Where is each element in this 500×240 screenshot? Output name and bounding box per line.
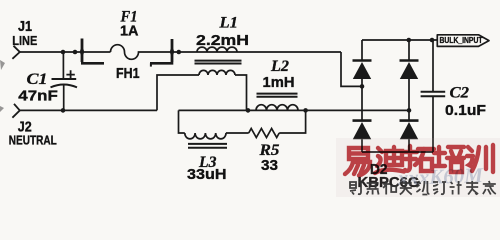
wire jog line rail down to bridge AC1 (341, 52, 362, 86)
diode D2c bottom-left (353, 121, 372, 140)
connector J1 (12, 46, 19, 59)
svg-text:L1: L1 (218, 15, 238, 32)
node fuse right terminal (177, 50, 182, 55)
tagline char she (350, 182, 363, 195)
fuseholder FH1 right clip (150, 39, 174, 67)
inductor L1 winding B (199, 70, 235, 75)
diode D2b top-right (400, 61, 419, 80)
wire L3 to R5 (226, 132, 249, 134)
wire bridge right leg (408, 40, 410, 152)
svg-text:C1: C1 (27, 71, 48, 88)
svg-text:2.2mH: 2.2mH (196, 32, 249, 49)
resistor R5 (249, 129, 280, 138)
net flag BULK_INPUT (437, 35, 489, 47)
node C2 top junction (430, 38, 435, 43)
tagline char jia (483, 181, 496, 195)
node bridge AC2 junction (407, 108, 412, 113)
node A junction (246, 108, 251, 113)
svg-text:LINE: LINE (12, 33, 37, 48)
wire R5 to node B (279, 110, 305, 133)
inductor L1 winding A (197, 47, 237, 52)
tagline char he (383, 181, 396, 195)
watermark char tuo (404, 146, 434, 171)
svg-text:33: 33 (261, 157, 278, 174)
fuse F1 element (111, 45, 173, 60)
wire damping branch left side (179, 110, 185, 133)
wire top rail from J1 to fuse (20, 51, 111, 53)
capacitor C2 (421, 40, 446, 152)
watermark red characters (345, 145, 493, 176)
svg-text:1A: 1A (120, 22, 139, 39)
inductor L2 winding (256, 105, 298, 111)
svg-text:0.1uF: 0.1uF (445, 102, 486, 119)
wire filter mid rail (node A to bridge AC2) (179, 109, 410, 111)
inductor L2 core (257, 94, 298, 97)
tagline char pin (367, 183, 379, 195)
svg-text:1mH: 1mH (263, 74, 295, 91)
svg-text:BULK_INPUT: BULK_INPUT (440, 36, 483, 45)
diode D2d bottom-right (400, 121, 419, 140)
svg-text:NEUTRAL: NEUTRAL (9, 132, 57, 147)
C1 plus polarity mark (66, 70, 74, 79)
inductor L3 winding (185, 133, 226, 139)
svg-text:C2: C2 (450, 84, 470, 101)
diode D2a top-left (353, 61, 372, 80)
wire bridge positive top line (362, 39, 437, 41)
fuseholder FH1 left clip (80, 39, 104, 64)
wire bridge left leg (361, 40, 363, 152)
wire riser neutral to L1 winding B (157, 75, 199, 110)
tagline char ji (450, 181, 462, 195)
svg-text:FH1: FH1 (116, 65, 140, 82)
capacitor C1 (51, 52, 78, 110)
inductor L3 core (188, 144, 227, 148)
wire fuse to L1 and to bridge jog (173, 51, 341, 53)
tagline char zhuan (466, 181, 478, 195)
watermark char di (375, 147, 404, 173)
watermark char xun (467, 145, 493, 172)
watermark char yi (345, 148, 370, 176)
node fuse left terminal (73, 50, 78, 55)
svg-text:33uH: 33uH (187, 166, 227, 183)
wire L1 winding B to node A (235, 75, 247, 110)
tagline char xian (416, 181, 429, 195)
scan edge smudge left (0, 60, 5, 112)
node C1 top junction (61, 50, 66, 55)
svg-text:47nF: 47nF (18, 88, 58, 105)
inductor L1 core (195, 61, 242, 64)
watermark gray tagline (350, 181, 496, 195)
tagline char she2 (433, 182, 446, 194)
scan noise tint (336, 138, 500, 197)
wire bridge negative bottom line (362, 151, 433, 153)
watermark char pei (434, 147, 464, 172)
wire neutral rail J2 to L1 winding B riser (20, 109, 157, 111)
node B junction (303, 108, 308, 113)
connector J2 (12, 104, 19, 118)
tagline char tian (400, 183, 412, 195)
svg-text:L2: L2 (270, 58, 289, 75)
node C1 bottom junction (61, 108, 66, 113)
node right leg top junction (407, 38, 412, 43)
node bridge AC1 junction (360, 84, 365, 89)
